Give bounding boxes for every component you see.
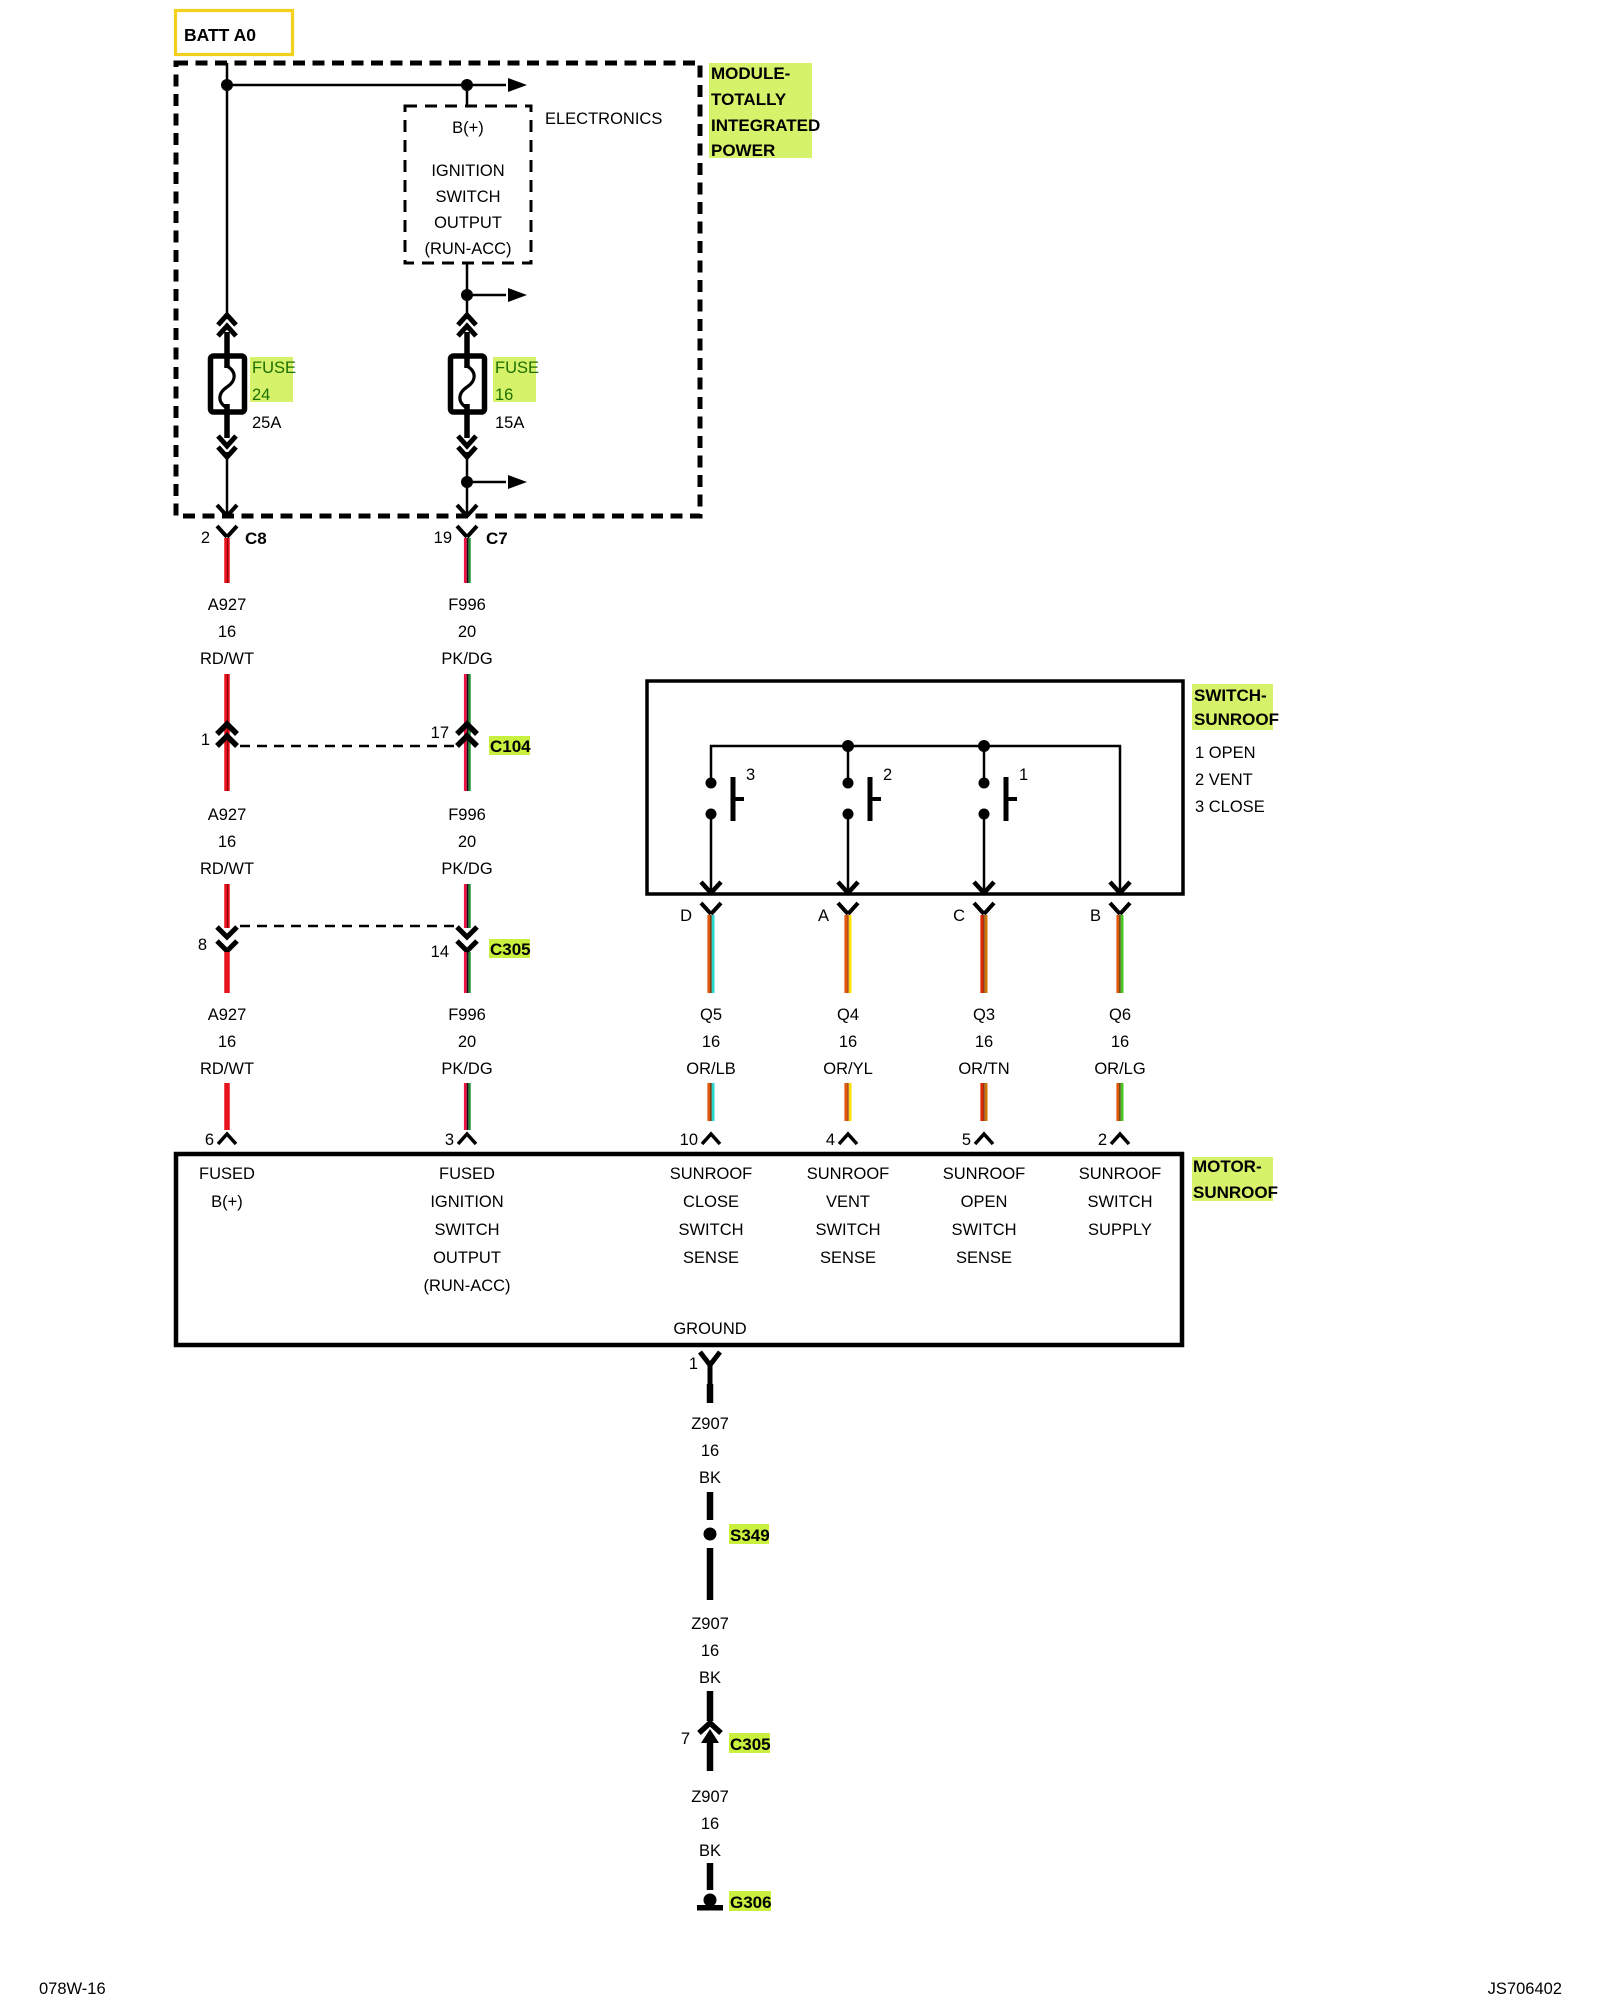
- svg-text:A927: A927: [208, 1006, 247, 1024]
- svg-text:POWER: POWER: [711, 141, 775, 160]
- wire: ignition switch output down to junction: [466, 263, 469, 315]
- svg-text:PK/DG: PK/DG: [441, 650, 492, 668]
- svg-text:6: 6: [205, 1131, 214, 1149]
- svg-text:BK: BK: [699, 1469, 721, 1487]
- svg-text:IGNITION: IGNITION: [430, 1193, 503, 1211]
- connector chevrons above fuse 24: [218, 315, 236, 336]
- svg-text:14: 14: [431, 943, 449, 961]
- wire: thick stub into fuse 24: [224, 332, 230, 368]
- connector pin C: [953, 903, 994, 925]
- label wire F996 20 PK/DG: [441, 596, 492, 668]
- svg-text:1 OPEN: 1 OPEN: [1195, 744, 1256, 762]
- svg-text:RD/WT: RD/WT: [200, 650, 254, 668]
- svg-text:F996: F996: [448, 1006, 486, 1024]
- svg-text:B(+): B(+): [452, 119, 484, 137]
- svg-text:16: 16: [495, 386, 513, 404]
- svg-text:SENSE: SENSE: [820, 1249, 876, 1267]
- svg-text:TOTALLY: TOTALLY: [711, 90, 787, 109]
- label SWITCH-SUNROOF: [1192, 684, 1279, 730]
- wire Z907 segment 2: [707, 1492, 714, 1520]
- svg-text:2: 2: [201, 529, 210, 547]
- connector C8 pin 2: [201, 526, 267, 548]
- arrow: col2 exit at module border: [457, 505, 477, 516]
- label C104: [489, 736, 530, 755]
- wire A927 segment 3: [224, 884, 230, 928]
- svg-text:OPEN: OPEN: [961, 1193, 1008, 1211]
- svg-text:SUNROOF: SUNROOF: [1079, 1165, 1162, 1183]
- svg-text:A927: A927: [208, 806, 247, 824]
- svg-text:16: 16: [218, 833, 236, 851]
- svg-text:PK/DG: PK/DG: [441, 860, 492, 878]
- svg-text:4: 4: [826, 1131, 835, 1149]
- svg-text:G306: G306: [730, 1893, 772, 1912]
- node: junction dot col2 top bus: [461, 79, 473, 91]
- switch 2 (VENT): [838, 766, 892, 893]
- svg-text:2 VENT: 2 VENT: [1195, 771, 1253, 789]
- wire Q5 16 OR/LB segment 1: [709, 915, 713, 993]
- svg-text:SENSE: SENSE: [956, 1249, 1012, 1267]
- svg-text:5: 5: [962, 1131, 971, 1149]
- svg-text:C8: C8: [245, 529, 267, 548]
- svg-text:PK/DG: PK/DG: [441, 1060, 492, 1078]
- wire F996 segment 2: [465, 674, 469, 791]
- connector pin 4 into motor: [826, 1131, 857, 1149]
- connector pin 10 into motor: [680, 1131, 720, 1149]
- svg-text:16: 16: [701, 1442, 719, 1460]
- wire F996 segment 4: [465, 952, 469, 1130]
- svg-text:SWITCH: SWITCH: [678, 1221, 743, 1239]
- motor box MOTOR-SUNROOF: [176, 1154, 1182, 1345]
- svg-text:SWITCH-: SWITCH-: [1194, 686, 1267, 705]
- svg-text:1: 1: [1019, 766, 1028, 784]
- switch 3 (CLOSE): [701, 766, 755, 893]
- svg-text:FUSED: FUSED: [199, 1165, 255, 1183]
- connector pin 5 into motor: [962, 1131, 993, 1149]
- svg-text:SWITCH: SWITCH: [815, 1221, 880, 1239]
- wire: battery feed vertical stub into module (col1): [226, 63, 229, 315]
- connector pin B: [1090, 903, 1130, 925]
- svg-text:BATT A0: BATT A0: [184, 25, 256, 45]
- svg-text:RD/WT: RD/WT: [200, 1060, 254, 1078]
- connector C7 pin 19: [434, 526, 508, 548]
- svg-text:17: 17: [431, 724, 449, 742]
- svg-text:C7: C7: [486, 529, 508, 548]
- svg-text:SUNROOF: SUNROOF: [1193, 1183, 1278, 1202]
- svg-text:19: 19: [434, 529, 452, 547]
- svg-text:Z907: Z907: [691, 1615, 729, 1633]
- svg-text:24: 24: [252, 386, 270, 404]
- svg-text:OUTPUT: OUTPUT: [433, 1249, 501, 1267]
- connector pin A: [818, 903, 858, 925]
- arrow: lower branch continues right: [508, 475, 527, 489]
- switch box SWITCH-SUNROOF: [647, 681, 1183, 894]
- fuse FUSE 16 15A: [451, 356, 485, 412]
- label C305: [489, 939, 530, 958]
- node: bus junction dot at switch 1: [978, 740, 990, 752]
- svg-text:(RUN-ACC): (RUN-ACC): [423, 1277, 510, 1295]
- wire: thick stub below fuse 16: [464, 404, 470, 438]
- svg-text:MOTOR-: MOTOR-: [1193, 1157, 1262, 1176]
- fuse FUSE 24 25A: [211, 356, 245, 412]
- svg-text:3: 3: [445, 1131, 454, 1149]
- svg-text:INTEGRATED: INTEGRATED: [711, 116, 820, 135]
- svg-text:SWITCH: SWITCH: [1087, 1193, 1152, 1211]
- wire Q4 segment 2: [846, 1083, 850, 1121]
- svg-text:16: 16: [701, 1815, 719, 1833]
- wire F996 segment 3: [465, 884, 469, 928]
- svg-text:SWITCH: SWITCH: [434, 1221, 499, 1239]
- label FUSE 24: [250, 357, 296, 432]
- svg-text:OR/LG: OR/LG: [1094, 1060, 1145, 1078]
- wire A927 16 RD/WT segment 1: [224, 538, 230, 583]
- svg-text:Z907: Z907: [691, 1415, 729, 1433]
- svg-text:10: 10: [680, 1131, 698, 1149]
- svg-text:F996: F996: [448, 806, 486, 824]
- wire A927 segment 4: [224, 952, 230, 1130]
- svg-text:IGNITION: IGNITION: [431, 162, 504, 180]
- svg-text:16: 16: [218, 1033, 236, 1051]
- svg-text:VENT: VENT: [826, 1193, 870, 1211]
- connector pin 3 into motor: [445, 1131, 476, 1149]
- svg-text:SWITCH: SWITCH: [951, 1221, 1016, 1239]
- svg-text:15A: 15A: [495, 414, 524, 432]
- label MOTOR-SUNROOF: [1192, 1157, 1278, 1202]
- wire: drop to switch 1 upper contact: [983, 746, 986, 783]
- connector pin 2 into motor: [1098, 1131, 1129, 1149]
- switch 1 (OPEN): [974, 766, 1028, 893]
- label wire F996 20 PK/DG (row 3): [441, 1006, 492, 1078]
- svg-text:2: 2: [1098, 1131, 1107, 1149]
- label wire Z907 16 BK (row 3): [691, 1788, 729, 1860]
- connector pin 6 into motor: [205, 1131, 236, 1149]
- svg-text:SENSE: SENSE: [683, 1249, 739, 1267]
- svg-text:GROUND: GROUND: [673, 1320, 746, 1338]
- label wire Q6 16 OR/LG: [1094, 1006, 1145, 1078]
- svg-text:OUTPUT: OUTPUT: [434, 214, 502, 232]
- legend 1 OPEN 2 VENT 3 CLOSE: [1195, 744, 1265, 816]
- svg-text:16: 16: [975, 1033, 993, 1051]
- node: junction dot col2 lower: [461, 476, 473, 488]
- wire: thick stub below fuse 24: [224, 404, 230, 438]
- svg-text:SWITCH: SWITCH: [435, 188, 500, 206]
- arrow: bus continues right: [508, 78, 527, 92]
- wire Q3 segment 2: [982, 1083, 986, 1121]
- svg-text:C305: C305: [730, 1735, 771, 1754]
- label wire Z907 16 BK (row 2): [691, 1615, 729, 1687]
- arrow: branch continues right: [508, 288, 527, 302]
- wire A927 segment 2: [224, 674, 230, 791]
- wire: branch right from junction: [467, 294, 506, 297]
- connector pin 1 ground out of motor: [689, 1352, 720, 1384]
- svg-text:FUSED: FUSED: [439, 1165, 495, 1183]
- svg-text:Z907: Z907: [691, 1788, 729, 1806]
- svg-text:S349: S349: [730, 1526, 770, 1545]
- wire: switch supply bus inside switch box: [711, 746, 1120, 891]
- node: junction dot below B(+) block: [461, 289, 473, 301]
- svg-text:16: 16: [1111, 1033, 1129, 1051]
- wire: branch right from lower junction: [467, 481, 506, 484]
- label wire F996 20 PK/DG (row 2): [441, 806, 492, 878]
- wire: thin lead to module edge col2: [466, 452, 469, 514]
- wire Z907 segment 3: [707, 1548, 714, 1600]
- arrow: bus exit to pin B: [1110, 882, 1130, 893]
- connector C305 pin 7 (ground path): [681, 1723, 771, 1771]
- svg-text:BK: BK: [699, 1842, 721, 1860]
- motor pin labels inside box: [199, 1165, 1161, 1338]
- svg-text:7: 7: [681, 1730, 690, 1748]
- svg-text:BK: BK: [699, 1669, 721, 1687]
- svg-text:D: D: [680, 907, 692, 925]
- wire: internal bus horizontal at top of module: [227, 84, 506, 87]
- module box MODULE-TOTALLY INTEGRATED POWER (dashed): [176, 63, 700, 516]
- svg-text:C: C: [953, 907, 965, 925]
- svg-text:OR/TN: OR/TN: [958, 1060, 1009, 1078]
- svg-text:8: 8: [198, 936, 207, 954]
- svg-text:JS706402: JS706402: [1488, 1980, 1562, 1998]
- svg-text:B(+): B(+): [211, 1193, 243, 1211]
- connector pin D: [680, 903, 721, 925]
- label wire Q5 16 OR/LB: [686, 1006, 736, 1078]
- svg-text:16: 16: [839, 1033, 857, 1051]
- svg-text:OR/YL: OR/YL: [823, 1060, 873, 1078]
- label wire Q4 16 OR/YL: [823, 1006, 873, 1078]
- svg-text:SUPPLY: SUPPLY: [1088, 1221, 1152, 1239]
- wire: thin lead to module edge col1: [226, 452, 229, 514]
- svg-text:20: 20: [458, 1033, 476, 1051]
- svg-text:(RUN-ACC): (RUN-ACC): [424, 240, 511, 258]
- wire: drop to switch 2 upper contact: [847, 746, 850, 783]
- wire Q4 16 OR/YL segment 1: [846, 915, 850, 993]
- wire: dashed pairing line C305: [240, 925, 455, 928]
- label FUSE 16: [493, 357, 539, 432]
- svg-text:3 CLOSE: 3 CLOSE: [1195, 798, 1265, 816]
- svg-text:CLOSE: CLOSE: [683, 1193, 739, 1211]
- wire Q6 segment 2: [1118, 1083, 1122, 1121]
- connector chevrons below fuse 16: [458, 436, 476, 457]
- label wire Z907 16 BK: [691, 1415, 729, 1487]
- module label MODULE-TOTALLY INTEGRATED POWER: [709, 63, 820, 160]
- svg-text:C104: C104: [490, 737, 531, 756]
- svg-text:Q4: Q4: [837, 1006, 859, 1024]
- svg-text:1: 1: [689, 1355, 698, 1373]
- svg-text:16: 16: [218, 623, 236, 641]
- svg-text:SUNROOF: SUNROOF: [943, 1165, 1026, 1183]
- battery feed label box BATT A0: [176, 11, 293, 55]
- block: ignition switch output (inner dashed box): [405, 106, 531, 263]
- svg-text:2: 2: [883, 766, 892, 784]
- svg-text:ELECTRONICS: ELECTRONICS: [545, 110, 662, 128]
- svg-text:MODULE-: MODULE-: [711, 64, 790, 83]
- ground G306: [697, 1891, 772, 1912]
- wire Z907 16 BK segment 1: [707, 1384, 714, 1403]
- wire F996 20 PK/DG segment 1: [465, 538, 469, 583]
- svg-text:B: B: [1090, 907, 1101, 925]
- wire Z907 segment 4: [707, 1691, 714, 1721]
- arrow: col1 exit at module border: [217, 505, 237, 516]
- connector C104 in-line (pins 1 / 17): [201, 724, 531, 756]
- label wire Q3 16 OR/TN: [958, 1006, 1009, 1078]
- svg-text:SUNROOF: SUNROOF: [807, 1165, 890, 1183]
- svg-text:OR/LB: OR/LB: [686, 1060, 736, 1078]
- svg-text:RD/WT: RD/WT: [200, 860, 254, 878]
- svg-text:25A: 25A: [252, 414, 281, 432]
- wire Q5 segment 2: [709, 1083, 713, 1121]
- svg-text:16: 16: [702, 1033, 720, 1051]
- svg-text:A927: A927: [208, 596, 247, 614]
- wire: elbow down from bus into B(+) block: [466, 85, 469, 106]
- wire Q3 16 OR/TN segment 1: [982, 915, 986, 993]
- node: junction dot col1 top bus: [221, 79, 233, 91]
- svg-text:20: 20: [458, 833, 476, 851]
- svg-text:Q5: Q5: [700, 1006, 722, 1024]
- svg-text:3: 3: [746, 766, 755, 784]
- wire Z907 segment 5: [707, 1863, 714, 1890]
- node: bus junction dot at switch 2: [842, 740, 854, 752]
- splice S349: [704, 1524, 770, 1545]
- connector chevrons above fuse 16: [458, 315, 476, 336]
- wire: dashed pairing line C104: [240, 745, 455, 748]
- svg-text:20: 20: [458, 623, 476, 641]
- svg-text:Q3: Q3: [973, 1006, 995, 1024]
- svg-text:F996: F996: [448, 596, 486, 614]
- svg-text:16: 16: [701, 1642, 719, 1660]
- svg-text:FUSE: FUSE: [495, 359, 539, 377]
- svg-text:SUNROOF: SUNROOF: [1194, 710, 1279, 729]
- label wire A927 16 RD/WT: [200, 596, 254, 668]
- wire: thick stub into fuse 16: [464, 332, 470, 368]
- svg-text:C305: C305: [490, 940, 531, 959]
- svg-text:FUSE: FUSE: [252, 359, 296, 377]
- wire Q6 16 OR/LG segment 1: [1118, 915, 1122, 993]
- svg-text:SUNROOF: SUNROOF: [670, 1165, 753, 1183]
- label wire A927 16 RD/WT (row 3): [200, 1006, 254, 1078]
- svg-text:078W-16: 078W-16: [39, 1980, 106, 1998]
- svg-text:A: A: [818, 907, 829, 925]
- connector C305 in-line (pins 8 / 14): [198, 926, 531, 961]
- svg-text:1: 1: [201, 731, 210, 749]
- svg-text:Q6: Q6: [1109, 1006, 1131, 1024]
- connector chevrons below fuse 24: [218, 436, 236, 457]
- label wire A927 16 RD/WT (row 2): [200, 806, 254, 878]
